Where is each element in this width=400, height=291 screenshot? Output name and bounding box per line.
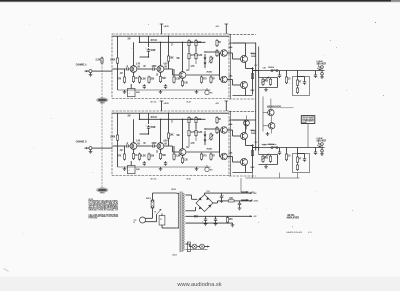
notes text block xyxy=(89,199,119,220)
svg-text:18K: 18K xyxy=(170,133,174,137)
spkr fuse label A xyxy=(251,54,256,58)
wire Q2 emitter B xyxy=(160,149,162,152)
svg-text:8.2K: 8.2K xyxy=(141,154,147,158)
svg-text:4.7K: 4.7K xyxy=(191,65,195,68)
wire Q1 collector up B xyxy=(133,119,135,143)
wire R101 to arrow xyxy=(235,200,246,202)
wire Q3 collector up A xyxy=(182,42,184,72)
resistor R18 A xyxy=(200,76,206,84)
electrolytic C2 A xyxy=(146,48,156,53)
resistor R101 xyxy=(227,196,235,202)
svg-text:+41V: +41V xyxy=(216,102,220,105)
transformer primary winding xyxy=(177,193,179,228)
transformer core xyxy=(180,192,182,253)
zobel resistor 2 B xyxy=(296,164,298,171)
diode D104 xyxy=(195,215,198,218)
transistor Q1 A xyxy=(130,65,140,73)
dashed circuit board outline channel A xyxy=(112,34,229,99)
transistor Q3 B xyxy=(179,149,186,156)
output cap C11 B xyxy=(314,148,317,155)
voltage callouts out B xyxy=(255,142,267,146)
svg-text:X29A: X29A xyxy=(229,123,233,126)
svg-text:407-64: 407-64 xyxy=(151,39,158,42)
wire J2 to box B xyxy=(97,147,113,149)
thermal breaker box xyxy=(159,216,165,226)
wire C3 to Q2 B xyxy=(156,145,158,147)
coupling cap C10 A xyxy=(278,71,281,78)
ground at J2 xyxy=(89,150,93,154)
bypass cap C5 A xyxy=(143,84,146,88)
svg-text:CHANNEL B: CHANNEL B xyxy=(76,139,87,143)
wire chain2 A xyxy=(189,60,196,69)
bottom watermark band xyxy=(0,277,400,291)
output transistor Q5 B xyxy=(241,133,248,140)
speaker terminal upper A xyxy=(319,66,324,69)
resistor R15 A xyxy=(195,39,201,47)
wire Q1 emitter B xyxy=(133,149,135,152)
bias transistor Q8 on heat sink xyxy=(268,109,274,115)
resistor R5 A xyxy=(138,76,146,84)
svg-text:47: 47 xyxy=(212,154,215,158)
+V rail channel B xyxy=(113,112,229,114)
transistor Q2 A xyxy=(157,65,167,73)
wire R2 B xyxy=(124,146,126,153)
svg-text:417-110: 417-110 xyxy=(151,100,157,103)
svg-text:100: 100 xyxy=(197,40,201,44)
wire C2 to Q1 A xyxy=(140,53,149,57)
emitter resistor R12 A xyxy=(181,80,188,87)
svg-text:10: 10 xyxy=(288,154,291,158)
PSU arrow out 2 xyxy=(247,200,259,203)
wire Q2 emitter A xyxy=(160,72,162,75)
coupling cap C10 B xyxy=(278,148,281,155)
svg-text:417-110: 417-110 xyxy=(151,177,157,180)
svg-text:.1: .1 xyxy=(126,141,129,145)
driver transistor Q4 B xyxy=(221,127,228,134)
svg-text:47K: 47K xyxy=(118,154,122,158)
resistor R14b B xyxy=(188,129,196,137)
svg-text:2.2K: 2.2K xyxy=(96,58,102,62)
bias network wires B xyxy=(259,155,278,165)
wire R1 top B xyxy=(117,113,119,134)
transformer secondary winding xyxy=(182,193,185,250)
output transistor Q7 B xyxy=(241,159,248,166)
wire vert right B xyxy=(205,129,220,152)
input coupling wire B xyxy=(113,145,126,147)
svg-text:100: 100 xyxy=(229,196,233,200)
zobel resistor B xyxy=(296,156,301,164)
resistor R10 B xyxy=(173,153,181,161)
voltage callouts B xyxy=(120,115,190,154)
bias diodes D1 D2 A xyxy=(204,54,207,68)
resistor R2 B xyxy=(118,153,126,161)
box bottom extension to bus B xyxy=(229,175,256,177)
bus feed line 3 xyxy=(262,97,264,132)
coupling cap C3 A xyxy=(151,64,156,71)
fuse F100 xyxy=(146,197,154,208)
emitter resistor R8 A xyxy=(159,75,166,83)
transformer label xyxy=(172,188,176,191)
wire Q6-Q7 A xyxy=(227,80,240,86)
wire C3 to Q2 A xyxy=(156,68,158,70)
filter cap C101 xyxy=(238,201,241,206)
wire Q5 emitter B xyxy=(246,139,253,145)
svg-text:56: 56 xyxy=(218,40,221,44)
filter cap C100 xyxy=(220,193,225,199)
wire Q2 collector up B xyxy=(160,119,162,143)
right feed vertical B xyxy=(229,111,231,176)
zobel wires A xyxy=(298,71,305,79)
wire chain A xyxy=(189,47,196,52)
zobel network box B xyxy=(293,154,310,173)
amp supply arrow B xyxy=(241,199,254,202)
supply bus line 2 xyxy=(258,47,260,151)
emitter res RE1 A xyxy=(251,67,253,70)
wire Q3 emitter A xyxy=(182,78,184,80)
interstage wire Q1-Q2 A xyxy=(137,68,152,70)
resistor R2 A xyxy=(118,76,126,84)
note box outline xyxy=(301,116,315,124)
input coupling wire A xyxy=(113,68,126,70)
zobel wires B xyxy=(298,148,305,156)
svg-text:56: 56 xyxy=(218,117,221,121)
svg-text:47: 47 xyxy=(299,157,302,161)
wire bridge top out xyxy=(205,193,247,194)
driver transistor Q4 A xyxy=(221,50,228,57)
wire plug to fuse xyxy=(149,208,153,218)
interstage wire Q2-Q3 A xyxy=(164,69,180,75)
zobel cap B xyxy=(303,154,306,162)
cap C102 xyxy=(202,216,207,223)
svg-text:POSITION.: POSITION. xyxy=(89,217,98,219)
collector feed wire channel B xyxy=(140,118,206,120)
bias transistor Q9 xyxy=(244,120,250,126)
bypass cap C6 B xyxy=(164,161,167,165)
assorted label r14 A xyxy=(191,65,213,74)
svg-text:8 OHM: 8 OHM xyxy=(317,138,323,140)
svg-text:56-56: 56-56 xyxy=(187,101,191,103)
label CHANNEL A xyxy=(76,62,87,66)
output transistor Q5 A xyxy=(241,56,248,63)
interstage wire Q1-Q2 B xyxy=(137,145,152,147)
zobel resistor 2 A xyxy=(296,87,298,94)
svg-text:+40.5V: +40.5V xyxy=(164,25,170,28)
svg-text:54-152: 54-152 xyxy=(172,188,176,191)
AC plug P1 xyxy=(134,217,149,224)
ground C101 xyxy=(238,206,242,210)
resistor R20 A xyxy=(285,71,290,85)
bias network wires A xyxy=(259,78,278,88)
wire Q8 up xyxy=(263,99,271,113)
resistor R100 on shield line xyxy=(96,57,104,65)
bias diodes D1 D2 B xyxy=(204,131,207,145)
svg-text:47: 47 xyxy=(212,77,215,81)
right feed vertical A xyxy=(229,34,231,99)
pilot lamp PL2 xyxy=(197,244,205,249)
svg-text:560: 560 xyxy=(162,153,166,157)
svg-text:56K: 56K xyxy=(177,57,180,60)
wire Q6-Q7 B xyxy=(227,157,240,163)
resistor R19 B xyxy=(210,153,215,161)
output cap C11 A xyxy=(314,71,317,78)
svg-text:3.3K: 3.3K xyxy=(175,154,181,158)
fuse F1 A xyxy=(268,66,278,72)
amp supply arrow A xyxy=(241,178,255,194)
wire switch to breaker xyxy=(161,214,163,216)
wire rail to Q1 collector A xyxy=(139,36,141,42)
wire to C4 A xyxy=(130,84,132,89)
bias pot R16 A xyxy=(209,56,214,64)
wire node to output line A xyxy=(253,70,259,72)
bottom ground bus B xyxy=(118,166,211,168)
wire Q3 collector up B xyxy=(182,119,184,149)
wire Q9 xyxy=(246,116,248,130)
wire bridge right out xyxy=(213,201,227,203)
transistor Q2 B xyxy=(157,142,167,150)
svg-text:120: 120 xyxy=(184,81,188,85)
svg-text:150: 150 xyxy=(229,217,233,221)
wire C2 to Q1 B xyxy=(140,130,149,134)
svg-text:8 OHM: 8 OHM xyxy=(317,61,323,63)
transistor Q1 B xyxy=(130,142,140,150)
svg-text:8.2K: 8.2K xyxy=(141,77,147,81)
wire plug lower xyxy=(149,215,157,222)
resistor R10 A xyxy=(173,76,181,84)
svg-text:270: 270 xyxy=(203,77,207,81)
bridge rectifier D100-D103 xyxy=(196,191,213,212)
resistor R102 xyxy=(226,216,232,223)
+V rail channel A xyxy=(113,35,229,37)
wire Q4 base A xyxy=(220,52,221,54)
emitter resistor R4 B xyxy=(132,152,138,160)
heath schematic number xyxy=(287,231,303,234)
mid bias wire xyxy=(262,143,277,145)
bias res RB1 B xyxy=(262,155,268,163)
junction dots B xyxy=(133,113,206,147)
box bottom extension to bus A xyxy=(229,98,256,100)
svg-text:120: 120 xyxy=(184,158,188,162)
svg-text:+40.5V: +40.5V xyxy=(164,102,170,105)
wire Q3 emitter B xyxy=(182,155,184,157)
wire fuse up xyxy=(153,193,177,200)
input jack J2 channel B xyxy=(85,147,97,150)
driver transistor Q6 B xyxy=(221,153,228,160)
bias res RB1 A xyxy=(262,78,268,86)
svg-text:MO13: MO13 xyxy=(251,53,255,55)
wire Q10 xyxy=(263,116,272,134)
speaker ground B xyxy=(320,152,324,156)
svg-text:47: 47 xyxy=(299,80,302,84)
label heat sink mounted A xyxy=(267,105,281,108)
bias network ground B xyxy=(264,165,268,169)
wire J1 to shield line xyxy=(97,70,113,72)
bottom edge labels A xyxy=(151,100,191,103)
supply bus line 1 xyxy=(255,43,257,151)
zobel network box A xyxy=(293,77,310,96)
channel B lower drops xyxy=(253,172,298,179)
coupling cap C1 A xyxy=(125,64,129,71)
resistor R19 A xyxy=(210,76,215,84)
svg-text:10: 10 xyxy=(288,77,291,81)
bypass cap C5 B xyxy=(143,161,146,165)
emitter resistor R8 B xyxy=(159,152,166,160)
model title line 2 xyxy=(287,216,300,220)
model title line 1 xyxy=(287,213,294,217)
svg-text:CHANNEL A: CHANNEL A xyxy=(76,62,87,66)
output line B xyxy=(253,147,325,149)
svg-text:RT1: RT1 xyxy=(210,170,213,172)
speaker ground A xyxy=(320,75,324,79)
svg-text:2N3416: 2N3416 xyxy=(207,71,213,74)
wire bias down A xyxy=(258,71,260,78)
channel B lower rail xyxy=(246,177,300,179)
wire Q6 base B xyxy=(220,130,221,157)
resistor R5 B xyxy=(138,153,146,161)
ground sym 2 A xyxy=(159,90,163,94)
wire Q5 collector to rail B xyxy=(233,120,246,133)
wire Q6 base A xyxy=(220,53,221,80)
wire breaker to transformer xyxy=(162,225,177,228)
switch SW1 xyxy=(155,209,162,215)
resistor R17b A xyxy=(216,49,218,57)
ground low rail xyxy=(231,223,235,227)
emitter resistor R4 A xyxy=(132,75,138,83)
cable shield blob B xyxy=(97,188,109,195)
wire low secondary 1 xyxy=(185,215,246,217)
resistor R17 B xyxy=(216,116,221,124)
dashed circuit board outline channel B xyxy=(112,111,229,176)
wire R9 B xyxy=(168,113,170,146)
svg-text:RT1: RT1 xyxy=(210,93,213,95)
output node vertical A xyxy=(251,69,253,95)
tiny speck above footer xyxy=(292,226,293,227)
ground sym 3 B xyxy=(195,167,199,171)
transformer bottom label xyxy=(173,254,177,257)
wire driver base bus B xyxy=(186,151,220,153)
spkr fuse label B xyxy=(251,131,256,135)
svg-text:SHIELD: SHIELD xyxy=(100,193,105,195)
svg-text:MO13: MO13 xyxy=(251,90,255,92)
wire Q4 base B xyxy=(220,129,221,131)
bias resistor R1 A xyxy=(110,57,118,65)
bias network ground A xyxy=(264,88,268,92)
svg-text:270: 270 xyxy=(203,154,207,158)
ground C102 xyxy=(204,222,208,226)
resistor R17b B xyxy=(216,126,218,134)
label CHANNEL B xyxy=(76,139,87,143)
svg-text:2.2K: 2.2K xyxy=(197,130,203,134)
svg-text:MO13: MO13 xyxy=(251,167,255,169)
electrolytic C2 B xyxy=(146,125,156,130)
ground C100 xyxy=(220,199,224,203)
note box text xyxy=(302,116,314,125)
wire secondary tap to bridge bottom xyxy=(185,207,195,211)
junction dots A xyxy=(133,36,206,70)
svg-text:56K: 56K xyxy=(177,134,180,137)
svg-text:.1: .1 xyxy=(126,64,129,68)
mid ground xyxy=(266,132,270,136)
speaker terminal lower B xyxy=(321,148,324,153)
svg-text:HEATH 595-409: HEATH 595-409 xyxy=(287,231,303,234)
svg-text:10MF: 10MF xyxy=(152,141,157,145)
wire Q5 collector to rail A xyxy=(233,43,246,56)
svg-text:+41V: +41V xyxy=(216,25,220,28)
resistor R9 A xyxy=(167,55,174,63)
wire secondary top to bridge xyxy=(185,195,197,199)
ground at J1 xyxy=(89,73,93,77)
voltage callouts A xyxy=(120,38,190,77)
speaker plug arrow B xyxy=(317,145,321,148)
svg-text:330: 330 xyxy=(150,154,154,158)
wire rail to Q1 collector B xyxy=(139,113,141,119)
+V feed stub channel A xyxy=(160,24,170,34)
page number xyxy=(308,232,312,234)
svg-text:330: 330 xyxy=(150,77,154,81)
wire vert right A xyxy=(205,52,220,75)
wire to pilot lamp xyxy=(185,244,207,250)
thermistor RT1 B xyxy=(205,165,213,172)
wire node to output line B xyxy=(253,147,259,149)
ground sym 1 A xyxy=(123,90,127,94)
wire Q4-Q5 A xyxy=(227,53,240,59)
svg-text:MO13: MO13 xyxy=(251,130,255,132)
bias pot R16 B xyxy=(209,133,214,141)
box-to-bus wire A xyxy=(229,42,256,44)
svg-text:+39.5V: +39.5V xyxy=(250,192,255,194)
arrow lamp xyxy=(204,246,209,248)
svg-text:2N3416: 2N3416 xyxy=(207,148,213,151)
svg-text:100: 100 xyxy=(197,117,201,121)
svg-text:56-56: 56-56 xyxy=(187,178,191,180)
interstage wire Q2-Q3 B xyxy=(164,146,180,152)
resistor R20 B xyxy=(285,148,290,162)
box-to-bus wire B xyxy=(229,119,256,121)
resistor R14b A xyxy=(188,52,196,60)
svg-text:6.8V: 6.8V xyxy=(164,63,168,66)
svg-text:20V: 20V xyxy=(128,38,131,41)
bottom edge labels B xyxy=(151,177,191,180)
wire R10 A xyxy=(173,69,175,76)
svg-text:0.6V: 0.6V xyxy=(263,144,267,146)
svg-text:6.8V: 6.8V xyxy=(164,140,168,143)
svg-text:www.audiodna.sk: www.audiodna.sk xyxy=(176,282,221,288)
rail extension to bus B xyxy=(229,110,256,112)
resistor R9 B xyxy=(167,132,174,140)
bias res RB2 B xyxy=(269,155,271,163)
resistor R14 B xyxy=(188,116,194,124)
svg-text:+39.5V: +39.5V xyxy=(253,201,258,203)
svg-text:4.7K: 4.7K xyxy=(191,142,195,145)
wire R2 A xyxy=(124,69,126,76)
output line A xyxy=(253,70,325,72)
svg-text:AMPLIFIER: AMPLIFIER xyxy=(287,216,300,220)
emitter res RE1 B xyxy=(251,144,253,147)
svg-text:47K: 47K xyxy=(118,77,122,81)
wire C1 to Q1 base A xyxy=(129,68,132,70)
cable shield blob A xyxy=(97,98,109,105)
wire R1 top A xyxy=(117,36,119,57)
svg-text:250MF: 250MF xyxy=(136,169,140,171)
+V feed stub channel B xyxy=(160,101,170,111)
wire spk up B xyxy=(319,140,323,148)
+V feed stub 2 channel A xyxy=(216,24,229,34)
wire from note box down xyxy=(307,124,309,148)
wire Q1 collector up A xyxy=(133,42,135,66)
wire Q7 emitter A xyxy=(233,88,253,95)
coupling cap C1 B xyxy=(125,141,129,148)
zobel cap A xyxy=(303,77,306,85)
feedback electrolytic box C4 B xyxy=(128,166,140,174)
